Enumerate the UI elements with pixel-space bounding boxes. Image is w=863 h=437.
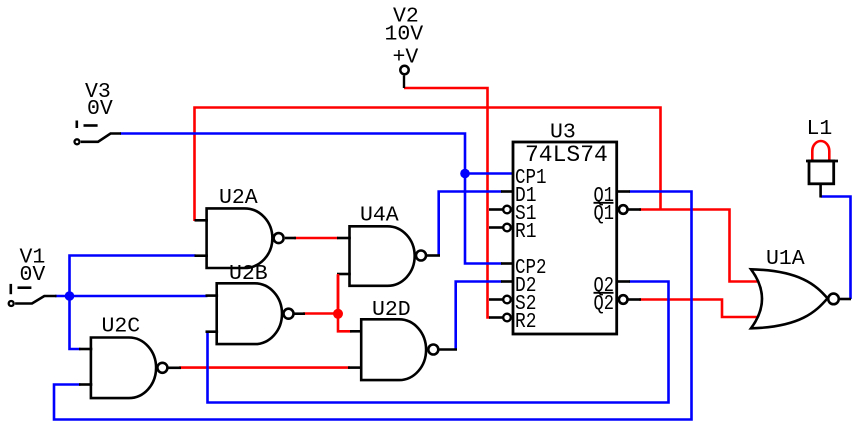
terminal V2 +V <box>385 5 424 89</box>
svg-text:U2C: U2C <box>102 315 141 339</box>
wire red Q1bar to U1A.in1 <box>639 210 757 282</box>
svg-text:0V: 0V <box>20 263 46 287</box>
U3 pin D1 <box>501 185 537 208</box>
svg-text:U2B: U2B <box>229 262 268 286</box>
U3 pin Q1bar <box>594 203 642 226</box>
wire net V1 blue: switch to U2A.in2 U2B.in1 U2C.in1 <box>55 256 208 350</box>
svg-text:U3: U3 <box>550 121 576 145</box>
svg-text:10V: 10V <box>385 23 424 47</box>
svg-text:0V: 0V <box>87 97 113 121</box>
wire blue U2D.out to D2 <box>456 282 502 350</box>
U3 pin Q2 <box>594 275 631 298</box>
wire red U2B.out to junction to U4A.in2 and U2D.in1 <box>303 275 352 331</box>
wire red U4A.in2 vertical (stub link) <box>337 274 340 314</box>
svg-text:74LS74: 74LS74 <box>525 142 608 168</box>
NAND gate U2B <box>206 262 306 344</box>
U3 pin D2 <box>501 275 537 298</box>
junction dot blue V1 <box>65 291 75 301</box>
svg-text:U2D: U2D <box>372 298 411 322</box>
wire net V2 +V red: to R2 <box>404 88 490 318</box>
IC U3 74LS74 <box>513 121 617 335</box>
U3 pin S2 <box>489 293 537 316</box>
switch V3 <box>75 80 122 144</box>
wire net Q1bar feedback red top: U2A.in1 to Q1bar column <box>195 108 661 222</box>
junction dot red <box>333 309 343 319</box>
wire blue Q1 to U2C.in2 <box>54 192 692 420</box>
NAND gate U2C <box>79 315 181 399</box>
NAND gate U4A <box>337 204 440 286</box>
NAND gate U2D <box>348 298 457 380</box>
svg-text:U2A: U2A <box>219 186 258 210</box>
lamp L1 <box>806 117 838 198</box>
U3 pin R2 <box>489 311 537 334</box>
svg-text:U4A: U4A <box>360 204 399 228</box>
junction dot blue CP1 <box>460 169 470 179</box>
U3 pin CP2 <box>501 257 547 280</box>
U3 pin R1 <box>489 221 537 244</box>
wire red U2A.out to U4A.in1 <box>294 237 338 240</box>
wire red Q2bar to U1A.in2 <box>639 300 757 318</box>
svg-text:Q2: Q2 <box>594 293 615 316</box>
wire red U2C.out to U2D.in2 <box>179 366 350 369</box>
svg-text:R1: R1 <box>515 221 537 244</box>
U3 pin Q2bar <box>594 293 642 316</box>
svg-text:U1A: U1A <box>766 247 805 271</box>
svg-text:Q1: Q1 <box>594 203 615 226</box>
svg-text:R2: R2 <box>515 311 537 334</box>
U3 pin CP1 <box>515 167 547 190</box>
U3 pin S1 <box>489 203 537 226</box>
svg-text:+V: +V <box>393 46 419 70</box>
wire net V3 blue: switch to CP1 and CP2 <box>120 134 513 264</box>
svg-text:L1: L1 <box>807 117 833 141</box>
wire blue U1A.out to L1 <box>821 197 851 300</box>
switch V1 <box>9 246 57 307</box>
U3 pin Q1 <box>594 185 631 208</box>
NAND gate U2A <box>195 186 297 268</box>
wire blue Q2 to U2B.in2 <box>208 282 669 403</box>
NOR gate U1A <box>751 247 851 328</box>
wire blue U4A.out to D1 <box>439 192 502 256</box>
